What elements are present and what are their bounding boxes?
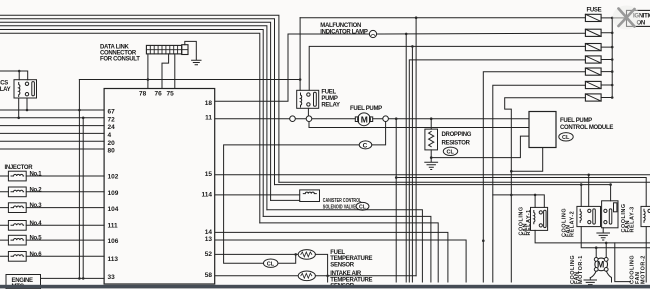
relay COOLING FAN RELAY-3 (602, 201, 618, 228)
ground bus vertical left B (82, 118, 84, 279)
connector C circle (359, 141, 372, 150)
node B (82, 117, 85, 120)
wire fuse 5 line (483, 72, 585, 282)
wire ECU pin 24 (0, 125, 104, 127)
svg-text:TEMPERATURE: TEMPERATURE (330, 277, 372, 283)
wire ECU pin 58 to intake air temperature sensor (215, 275, 298, 277)
node fuse3 drop (411, 45, 414, 48)
wire ECU pin 72 (0, 117, 104, 119)
label CL oval canister (356, 202, 369, 210)
solenoid CANISTER CONTROL SOLENOID VALVE (300, 190, 320, 202)
relay COOLING FAN RELAY-2 (577, 206, 601, 226)
pin numbers ECU top (139, 91, 174, 98)
wire cooling fan motor-1 second line (581, 227, 650, 248)
node dropping resistor bottom (430, 156, 433, 159)
wire bus fan line to x422 drop (263, 216, 431, 282)
pin numbers ECU right column (202, 100, 213, 279)
svg-text:RELAY-2: RELAY-2 (569, 211, 575, 237)
thermistor INTAKE AIR TEMPERATURE SENSOR (298, 271, 315, 281)
node ECCS relay feed junction (18, 70, 21, 73)
relay ECCS RELAY (14, 80, 37, 98)
wire long feed line y79.5 from left vertical to fuel pump relay (79, 79, 300, 81)
svg-text:C: C (363, 142, 368, 149)
svg-text:No.5: No.5 (30, 236, 43, 242)
connector DATA LINK CONNECTOR FOR CONSULT (146, 45, 188, 55)
svg-text:20: 20 (108, 140, 116, 147)
resistor DROPPING RESISTOR (425, 129, 438, 150)
svg-text:114: 114 (202, 191, 213, 198)
svg-text:106: 106 (108, 238, 119, 245)
svg-text:SENSOR: SENSOR (330, 263, 355, 269)
wire motor-1 left lead to ground (590, 271, 596, 278)
label ENGINE MTG (12, 278, 34, 289)
node fuse5 drop joins pin13 line (482, 239, 485, 242)
wire dropping resistor bottom to control module (431, 136, 529, 158)
wire right cut relay bottom drop (645, 227, 647, 282)
svg-text:INJECTOR: INJECTOR (5, 165, 34, 171)
node connector circle at relay drop (306, 116, 312, 122)
ground cooling fan relay-3 (597, 228, 610, 240)
svg-text:CL: CL (267, 262, 275, 268)
wire motor-1 right lead down (606, 271, 611, 282)
node relay-2 coil feed (580, 183, 583, 186)
wire bus stub to canister valve (271, 199, 300, 201)
svg-text:No.6: No.6 (30, 252, 43, 258)
wire connector line via C to pump node (224, 128, 386, 264)
svg-text:ENGINE: ENGINE (12, 278, 34, 284)
svg-text:11: 11 (205, 114, 212, 121)
wire motor-1 left lead up (595, 248, 597, 258)
node feed line meets coil drop (299, 78, 302, 81)
wire fuel pump relay output drop (307, 108, 309, 118)
svg-text:TEMPERATURE: TEMPERATURE (330, 256, 372, 262)
svg-text:No.2: No.2 (30, 187, 43, 193)
node motor-1 right feed (605, 242, 608, 245)
node bus fuse1 (611, 17, 614, 20)
label ECCS RELAY (clipped at left edge) (0, 81, 11, 94)
thermistor FUEL TEMPERATURE SENSOR (298, 250, 315, 260)
node fuse7 joins relay feed line (510, 194, 513, 197)
wire ECU pin 18 to malfunction indicator lamp (215, 34, 370, 101)
svg-text:RELAY: RELAY (0, 87, 11, 93)
wire engine ground to ECU pin 33 (41, 277, 105, 279)
pin numbers ECU left column (108, 109, 119, 281)
wire fuse 7 line (505, 98, 586, 282)
node bus fuse4 (611, 58, 614, 61)
wire injector No.5 (0, 239, 104, 241)
label COOLING FAN MOTOR-1 vertical (570, 255, 584, 284)
wire pump bypass loop (309, 122, 529, 128)
svg-text:RELAY: RELAY (321, 102, 340, 108)
injector No.3 (8, 203, 26, 213)
relay FUEL PUMP RELAY (297, 90, 319, 108)
label COOLING FAN RELAY-3 vertical (621, 203, 635, 232)
label COOLING FAN RELAY-1 vertical (519, 206, 533, 235)
wire cooling fan relay-1 coil feed (493, 195, 545, 208)
svg-text:104: 104 (108, 206, 119, 213)
op-amp ECU main box (104, 89, 215, 285)
wire injector No.4 (0, 224, 104, 226)
svg-text:No.1: No.1 (30, 172, 43, 178)
wire lamp to fuse 2 (377, 32, 586, 35)
node sensors common junction (326, 275, 329, 278)
svg-text:33: 33 (108, 274, 116, 281)
wire pump node drop to right feed line (396, 119, 646, 282)
wire injector No.2 (0, 191, 104, 193)
wire bus line 1 top-left (0, 15, 279, 182)
svg-text:52: 52 (205, 251, 213, 258)
svg-text:FUEL PUMP: FUEL PUMP (560, 118, 592, 124)
node bus fuse6 (611, 84, 614, 87)
wire ECU pin 15 line (215, 174, 650, 176)
connector CL oval on sensor line (264, 259, 278, 268)
ground for data link connector (185, 41, 201, 64)
svg-text:80: 80 (108, 148, 116, 155)
wire bus fan line to x438 drop (267, 210, 423, 282)
fuse F6 (585, 81, 601, 88)
svg-text:CL: CL (562, 135, 570, 141)
label FUEL TEMPERATURE SENSOR (330, 250, 372, 269)
injector No.4 (8, 221, 26, 231)
wire fuse 1 line (300, 17, 585, 19)
wire cooling fan motor-2 branch (615, 243, 631, 282)
wire bus line A across right (279, 181, 650, 183)
lamp MALFUNCTION INDICATOR LAMP symbol (369, 30, 376, 37)
label CL oval control module (559, 133, 573, 142)
injector No.1 (8, 171, 26, 181)
wire ECU pin 52 to fuel temperature sensor (215, 253, 299, 255)
wire ECU pin 4 (0, 132, 104, 134)
label COOLING FAN RELAY-2 vertical (562, 208, 576, 237)
node relay-3 feed (609, 183, 612, 186)
svg-text:24: 24 (108, 124, 116, 131)
svg-text:DROPPING: DROPPING (442, 132, 472, 138)
wire ECU pin 67 (0, 109, 104, 111)
IGNITION ON switch box (627, 10, 650, 26)
node bus fuse5 (611, 70, 614, 73)
wire ECCS relay feed from left edge (0, 71, 28, 80)
svg-text:67: 67 (108, 109, 116, 116)
svg-text:FUEL: FUEL (321, 90, 336, 96)
svg-text:CANISTER CONTROL: CANISTER CONTROL (323, 198, 362, 204)
injector No.6 (8, 252, 26, 262)
fuse F2 (585, 29, 601, 36)
wire relay-1 contact feed (534, 195, 536, 208)
svg-text:78: 78 (139, 91, 147, 98)
svg-text:CONTROL MODULE: CONTROL MODULE (560, 125, 613, 131)
injector No.5 (8, 235, 26, 245)
wire fuse 4 line (409, 60, 585, 282)
ENGINE MTG ground box (6, 275, 41, 289)
svg-text:CL: CL (447, 150, 455, 156)
fuse F3 (585, 44, 601, 51)
wire relay-3 feed from bus line B (610, 185, 612, 201)
svg-text:M: M (361, 114, 368, 124)
label IGNITION ON (633, 13, 650, 26)
wire bus line 3 top-left (0, 22, 271, 200)
svg-text:58: 58 (205, 272, 213, 279)
wire data link pin 75 (174, 54, 176, 89)
node dropping resistor tap (430, 117, 433, 120)
wire ignition bus vertical (611, 18, 613, 98)
label INTAKE AIR TEMPERATURE SENSOR (330, 271, 372, 289)
svg-text:ECCS: ECCS (0, 81, 8, 87)
wire bus line 2 top-left (0, 19, 275, 185)
svg-text:13: 13 (205, 236, 213, 243)
wire sensors common return (315, 254, 416, 282)
svg-text:No.4: No.4 (30, 221, 43, 227)
wire fuse 6 line (493, 85, 586, 282)
injector No.2 (8, 187, 26, 197)
wire bus line 6 top-left (0, 33, 260, 223)
wire fuse2 vertical drop (405, 34, 407, 282)
op-amp FUEL PUMP CONTROL MODULE box (529, 112, 556, 148)
wire ECCS relay output drop to pin 72 line (18, 98, 20, 118)
wire relay-2 coil feed from bus line B (580, 185, 582, 207)
wire control module bottom path to cooling fan relay-1 (511, 148, 542, 172)
wire fuse 3 line (309, 46, 585, 90)
svg-text:18: 18 (205, 100, 213, 107)
wire ECU pin 11 to fuel pump line (215, 118, 355, 120)
wire relay-2 contact feed from pin15 line (588, 175, 590, 207)
node connector circle on pin 11 line (290, 116, 296, 122)
fuse F4 (585, 56, 601, 63)
svg-text:PUMP: PUMP (321, 96, 337, 102)
fuse F5 (585, 68, 601, 75)
node engine ground on bus B (82, 277, 85, 280)
node data link pin 78 junction with feed line (147, 78, 150, 81)
svg-text:FUEL PUMP: FUEL PUMP (350, 106, 382, 112)
motor COOLING FAN MOTOR-1 (594, 258, 608, 272)
node bus fuse3 (611, 46, 614, 49)
svg-text:75: 75 (167, 91, 175, 98)
svg-text:14: 14 (205, 229, 213, 236)
node on pin 67 wire (26, 109, 29, 112)
relay COOLING FAN RELAY-1 (531, 207, 548, 230)
label FUEL PUMP RELAY (321, 90, 340, 109)
wire bus to ignition switch box (612, 17, 626, 19)
wire fuse1 vertical drop (415, 18, 417, 276)
wire bus line B across right (275, 184, 611, 186)
wire ECCS relay output drop to pin 67 line (26, 98, 28, 110)
svg-text:102: 102 (108, 174, 119, 181)
svg-text:INDICATOR LAMP: INDICATOR LAMP (320, 29, 368, 35)
svg-text:FUSE: FUSE (587, 8, 602, 14)
wire fuse outputs to ignition bus (601, 18, 612, 98)
fuse F1 (585, 14, 601, 21)
label COOLING FAN MOTOR-2 vertical (630, 255, 647, 284)
wire motor-1 right lead up (605, 243, 607, 258)
wire bus line 5 top-left (0, 30, 263, 217)
wire ECU pin 20 (0, 140, 104, 142)
node bus fuse2 (611, 32, 614, 35)
node A (78, 109, 81, 112)
wire bus fan line to x430 drop (260, 223, 438, 282)
wire bottom frame strip (0, 285, 650, 289)
svg-text:RELAY-3: RELAY-3 (629, 206, 635, 232)
svg-text:4: 4 (108, 132, 112, 139)
svg-text:MOTOR-2: MOTOR-2 (640, 255, 646, 284)
svg-text:M: M (597, 260, 604, 270)
label FUEL PUMP CONTROL MODULE (560, 118, 613, 131)
ground bus vertical left A (78, 80, 80, 279)
label CANISTER CONTROL SOLENOID VALVE (323, 198, 362, 211)
wire bus line 4 top-left (0, 26, 267, 210)
node bus fuse7 (611, 96, 614, 99)
node motor-1 left feed (595, 246, 598, 249)
node fuse1 line junction (415, 16, 418, 19)
node connector circle after pump (383, 116, 389, 122)
svg-text:MALFUNCTION: MALFUNCTION (320, 23, 361, 29)
svg-text:FOR CONSULT: FOR CONSULT (100, 57, 140, 63)
node pin15 line relay-2 tap (587, 174, 590, 177)
relay right edge cut relay box (641, 206, 650, 226)
wire ECU pin 14 to x448 drop (215, 232, 448, 282)
X cursor mark over ignition box (613, 6, 641, 30)
svg-text:111: 111 (108, 223, 119, 230)
svg-text:RESISTOR: RESISTOR (442, 141, 471, 147)
node pump line tap (395, 117, 398, 120)
motor FUEL PUMP symbol (355, 113, 372, 126)
svg-text:RELAY-1: RELAY-1 (526, 209, 532, 235)
svg-text:MOTOR-1: MOTOR-1 (578, 255, 584, 284)
wire ECU pin 13 to x466 drop (215, 240, 466, 282)
wire fuel pump output to control module (373, 118, 529, 120)
wire ECU pin 80 (0, 148, 104, 150)
svg-text:113: 113 (108, 256, 119, 263)
svg-text:FUEL: FUEL (330, 250, 345, 256)
node relay-1 feed junction (534, 194, 537, 197)
node fuse2 line junction (405, 33, 408, 36)
label DATA LINK CONNECTOR FOR CONSULT (100, 45, 140, 63)
label DROPPING RESISTOR (442, 132, 472, 147)
svg-text:76: 76 (155, 91, 163, 98)
ground dropping resistor (425, 158, 438, 170)
wire injector No.6 (0, 255, 104, 257)
svg-text:No.3: No.3 (30, 203, 43, 209)
node sensor lower line joins (294, 253, 297, 256)
svg-text:72: 72 (108, 116, 116, 123)
svg-text:109: 109 (108, 190, 119, 197)
wire data link pin 76 (162, 54, 169, 89)
svg-text:15: 15 (205, 171, 213, 178)
wire dropping resistor drop (430, 119, 432, 129)
wire fuse3 vertical drop (411, 46, 413, 282)
wire data link pin 78 (147, 54, 149, 89)
fuse F7 (585, 94, 601, 101)
wire injector No.3 (0, 207, 104, 209)
wire cooling fan motor-1 supply line (535, 230, 650, 243)
ground cooling fan motor-1 (584, 278, 597, 285)
node on pin 72 wire (17, 117, 20, 120)
label CL oval dropping resistor (443, 147, 457, 156)
wire ECU pin 114 to canister valve (215, 194, 300, 196)
wire injector No.1 (0, 175, 104, 177)
label MALFUNCTION INDICATOR LAMP (320, 23, 368, 35)
node engine ground on bus A (78, 277, 81, 280)
node control module path joins fuse7 drop (510, 170, 513, 173)
wire fuel pump relay coil feed drop (299, 18, 301, 91)
